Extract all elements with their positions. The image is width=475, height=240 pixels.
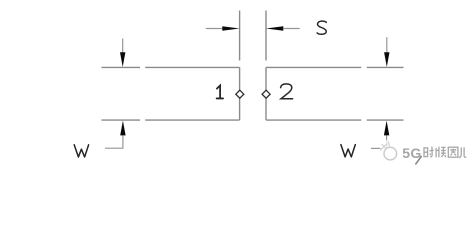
dimension S: left arrow tail [206,28,223,30]
dimension W left: bottom arrow tail [122,136,124,149]
microstrip right section: inner bottom edge segment [266,119,361,121]
microstrip right section: outer bottom edge segment [367,119,404,121]
dimension S: left arrowhead (points right) [222,26,239,31]
port 1 label "1" [217,86,223,99]
watermark character 频 (imitation strokes) [436,147,446,158]
label S [317,21,326,34]
dimension W right: bottom arrow tail [386,136,388,149]
dimension W right: top arrowhead (points down) [384,52,389,67]
port 2 label "2" [281,84,293,99]
dimension S: right arrowhead (points left) [266,26,283,31]
microstrip right section gap-end vertical edge [265,67,267,120]
watermark character 圈 (imitation strokes) [448,147,458,157]
watermark logo ring [384,147,397,160]
microstrip left section: inner top edge segment [145,66,239,68]
label W right [341,145,355,157]
microstrip right section: inner top edge segment [266,66,361,68]
microstrip left section: inner bottom edge segment [145,119,239,121]
dimension S: left extension line [239,11,241,61]
dimension W left: leader to label [105,147,124,149]
dimension S: right extension line [265,11,267,61]
dimension W left: bottom arrowhead (points up) [120,121,125,136]
dimension S: right arrow tail [283,28,300,30]
microstrip left section: outer top edge segment [102,66,141,68]
dimension W right: bottom arrowhead (points up) [384,121,389,136]
port 1 marker (diamond) [236,90,244,98]
watermark halo [380,140,397,151]
dimension W right: top arrow tail [386,37,388,53]
svg-text:5G: 5G [402,145,421,161]
dimension W left: top arrow tail [122,39,124,54]
watermark cursor mark [415,156,421,164]
watermark character 儿 (imitation strokes) [459,147,466,157]
label W left [74,145,88,157]
microstrip left section: outer bottom edge segment [102,119,141,121]
watermark character 射 (imitation strokes) [424,147,434,158]
microstrip left section gap-end vertical edge [239,67,241,120]
dimension W left: top arrowhead (points down) [120,52,125,67]
dimension W right: leader to label [371,147,383,149]
watermark logo sparkle [381,142,390,150]
port 2 marker (diamond) [262,90,270,98]
microstrip right section: outer top edge segment [367,66,404,68]
